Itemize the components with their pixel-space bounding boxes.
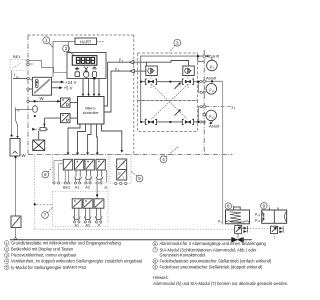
svg-text:+5 V: +5 V: [64, 86, 73, 91]
svg-text:Alarmmodul (6) und SIA-Modul (: Alarmmodul (6) und SIA-Modul (7) können …: [153, 281, 288, 286]
svg-text:BE1: BE1: [13, 54, 21, 59]
svg-text:Piezoventileinheit, immer eing: Piezoventileinheit, immer eingebaut: [11, 253, 77, 258]
crossed box (connector): [33, 140, 45, 151]
y2 output dash-dot: [203, 105, 206, 108]
callout circle 6: [42, 168, 53, 178]
supply line Zuluft internal: [141, 56, 204, 122]
svg-text:5: 5: [6, 266, 8, 270]
wire terminal to I/U: [29, 88, 32, 90]
gauge Py1: [206, 84, 217, 95]
gauge PZ: [207, 58, 218, 71]
Iy module 5 dashed: [110, 155, 131, 184]
travel sensor 9: [271, 226, 278, 233]
adjust arrow on V2 lead: [175, 83, 181, 89]
svg-text:U: U: [118, 172, 121, 176]
svg-text:HART: HART: [80, 39, 92, 44]
svg-text:7: 7: [154, 248, 156, 252]
callout circle 8: [225, 203, 235, 209]
pickup triangle on stem: [14, 237, 17, 239]
output transistor u-shapes: [75, 170, 103, 180]
control valve: [231, 237, 243, 242]
booster valve V4: [182, 119, 193, 124]
pill connector: [33, 106, 37, 112]
svg-text:y: y: [122, 161, 125, 165]
svg-text:A2: A2: [85, 186, 90, 190]
callout circle 3: [170, 39, 181, 52]
callout circle 5: [131, 172, 143, 182]
callout circle 1: [43, 37, 53, 48]
Abluft lower + arrow: [210, 121, 213, 123]
row3 connections: [141, 121, 204, 123]
wire HART left to input line: [53, 42, 75, 78]
spring actuator 8: [226, 207, 250, 224]
svg-text:1: 1: [6, 241, 8, 245]
svg-text:2: 2: [6, 247, 8, 251]
A/D converter box b: [61, 114, 71, 123]
double acting actuator 9: [262, 207, 287, 223]
wire HART branch to display module: [67, 42, 69, 53]
external BE1/pot wire (far left, down): [11, 71, 13, 135]
signal wires continue into valve block: [133, 61, 188, 67]
svg-text:W: W: [22, 153, 27, 158]
svg-text:Abluft: Abluft: [206, 76, 217, 81]
svg-text:7: 7: [44, 213, 47, 218]
input current Iw: [14, 73, 19, 79]
key icon hand (right): [92, 66, 96, 69]
microcontroller U1: [78, 97, 105, 125]
callout circle 4: [160, 146, 179, 163]
module 6 channel boxes: [63, 159, 105, 170]
svg-text:I: I: [123, 176, 124, 180]
svg-text:A1: A1: [75, 224, 80, 228]
feed branch row3 to y2: [199, 107, 200, 122]
wires micro bottom to modules: [68, 124, 122, 154]
key icon arrows (middle): [84, 67, 88, 73]
module 7 feed wire: [96, 185, 98, 199]
gauge PZ supply tap: [198, 57, 204, 62]
alarm module 6 dashed: [52, 155, 108, 184]
mechanical feedback dashed line: [35, 228, 235, 230]
wire BE1 lower terminal stub: [29, 63, 33, 65]
signal labels y1 y2: [114, 57, 124, 72]
row1 connections: [141, 81, 204, 83]
key buttons: [75, 71, 97, 77]
svg-text:4: 4: [162, 157, 165, 162]
svg-text:9: 9: [263, 204, 266, 209]
pilot stubs dashed: [151, 76, 188, 80]
svg-text:Grenzwert-Kontaktmodul: Grenzwert-Kontaktmodul: [160, 252, 206, 257]
small series element: [40, 128, 46, 131]
spindle 9 dashed: [273, 234, 275, 240]
key icon hand (left): [75, 67, 80, 70]
travel sensor 8: [235, 226, 242, 234]
svg-text:Federloser pneumatischer Stell: Federloser pneumatischer Stellantrieb (d…: [160, 265, 263, 270]
gauge Py2: [203, 113, 206, 116]
+5 V supply arrow: [52, 87, 60, 89]
HART modem box: [75, 38, 97, 45]
svg-text:2: 2: [65, 46, 68, 51]
valve unit dashed box 4: [138, 101, 198, 132]
svg-text:Alarmmodul für 3 Alarmausgänge: Alarmmodul für 3 Alarmausgänge und einen…: [160, 241, 267, 246]
callout circle 7: [42, 207, 53, 218]
svg-text:8: 8: [227, 204, 230, 209]
piezo pilot valve 1: [146, 66, 158, 76]
svg-text:BE2: BE2: [63, 186, 70, 190]
lcd display frame: [72, 56, 97, 66]
piezo pilot valve 2: [183, 66, 195, 76]
terminal circles on left boundary: [27, 59, 29, 102]
svg-text:9: 9: [154, 266, 156, 270]
svg-text:y1: y1: [257, 214, 260, 217]
operator module box 2 (display + keys): [67, 53, 106, 79]
svg-text:5: 5: [138, 176, 141, 181]
adjust arrow on V4 lead: [175, 110, 181, 116]
spring inside: [230, 212, 241, 223]
svg-text:Grundleiterplatte mit Mikrokon: Grundleiterplatte mit Mikrokontroller un…: [11, 240, 121, 245]
svg-text:Iy-Modul für Stellungsregler S: Iy-Modul für Stellungsregler SIPART PS2: [11, 265, 87, 270]
cross pilot lines dashed: [151, 84, 188, 119]
wires display to microcontroller: [83, 79, 99, 96]
booster valve V3: [145, 119, 156, 124]
svg-text:6: 6: [44, 172, 47, 177]
wire BE1 into board: [29, 61, 67, 73]
Zuluft port: [203, 55, 206, 58]
svg-text:Hinweis:: Hinweis:: [153, 275, 169, 280]
svg-text:kontroller: kontroller: [83, 110, 100, 115]
pipe y1 down to actuator 8: [222, 81, 224, 224]
angle gear box: [11, 216, 21, 228]
booster valve V2: [182, 79, 193, 84]
pot bottom node and shaft down: [15, 156, 17, 158]
exhaust branch row1: [199, 82, 200, 92]
callout circle 9: [261, 203, 271, 209]
svg-text:1: 1: [45, 38, 48, 43]
svg-text:y2: y2: [257, 220, 260, 223]
label I (sensor line): [15, 106, 20, 112]
svg-text:y1: y1: [212, 89, 215, 93]
svg-text:z: z: [213, 66, 215, 70]
piezo valve unit dashed box 3: [138, 53, 198, 101]
booster valve V1: [145, 79, 156, 84]
svg-text:3: 3: [176, 40, 179, 45]
wire node display out: [93, 77, 95, 79]
spindle down to valve: [237, 224, 239, 239]
svg-text:W: W: [40, 96, 45, 101]
W output line under I/U: [29, 100, 60, 102]
u-shapes: [73, 208, 102, 219]
main dashed enclosure box 1: [28, 35, 233, 155]
SIA module 7 dashed: [53, 192, 109, 227]
svg-text:4: 4: [6, 260, 8, 264]
wire HART right dashed stub: [97, 41, 105, 43]
svg-text:2: 2: [234, 106, 236, 110]
y1 output line: [203, 80, 206, 83]
open arrow connectors: [129, 60, 134, 73]
A/D converter box a: [61, 98, 71, 107]
svg-text:m: m: [17, 108, 20, 112]
legs to terminals: [54, 161, 107, 183]
svg-text:8: 8: [154, 259, 156, 263]
mechanical link into SIA module: [34, 156, 36, 230]
module 7 channel boxes: [72, 199, 104, 208]
svg-text:Ventileinheit, im doppelt wirk: Ventileinheit, im doppelt wirkenden Stel…: [11, 259, 143, 264]
svg-text:3: 3: [6, 254, 8, 258]
svg-text:A2: A2: [86, 224, 91, 228]
pneumatic interface boundary: [203, 50, 205, 155]
potentiometer (position sensor): [10, 139, 20, 157]
callout circle 2: [63, 45, 75, 56]
wires micro right to piezo signals: [104, 62, 130, 112]
I/U input converter: [32, 77, 51, 95]
svg-text:Federbelasteter pneumatischer: Federbelasteter pneumatischer Stellantri…: [160, 259, 272, 264]
diaphragm: [226, 221, 249, 222]
svg-text:+24 V: +24 V: [65, 80, 76, 85]
valve stem line: [10, 239, 252, 241]
left arrow element: [32, 128, 35, 131]
svg-text:6: 6: [154, 242, 156, 246]
7-segment digits: [76, 57, 94, 63]
svg-text:Abluft: Abluft: [209, 124, 220, 129]
sensor top link with jog: [16, 110, 18, 126]
svg-text:Zuluft: Zuluft: [209, 54, 220, 59]
svg-text:y2: y2: [212, 115, 215, 119]
+24 V supply arrow: [52, 81, 62, 83]
svg-text:Bedienfeld mit Display und Tas: Bedienfeld mit Display und Tasten: [11, 247, 74, 252]
svg-text:A1: A1: [75, 186, 80, 190]
